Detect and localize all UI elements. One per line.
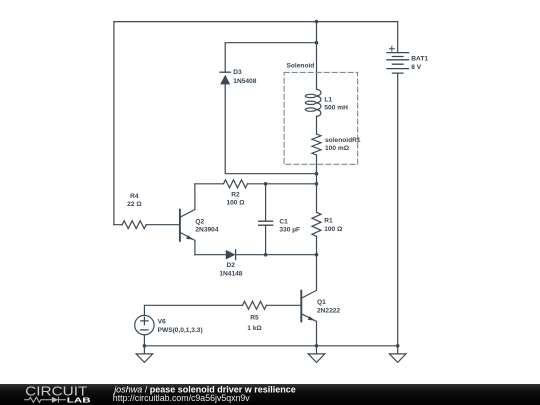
transistor Q2: [180, 184, 195, 255]
resistor R5: [243, 301, 267, 309]
svg-text:Q1: Q1: [317, 299, 326, 306]
svg-text:100 mΩ: 100 mΩ: [325, 145, 350, 152]
battery BAT1: [387, 22, 409, 346]
svg-text:Q2: Q2: [195, 218, 204, 225]
node C1 bottom / D2 wire: [264, 253, 268, 257]
diode D2: [226, 250, 236, 260]
ground G3: [389, 346, 406, 363]
node battery minus / ground rail: [396, 344, 400, 348]
svg-text:R2: R2: [231, 192, 240, 199]
node D3 cathode / solenoid branch: [315, 41, 319, 45]
svg-text:V6: V6: [158, 319, 166, 326]
svg-text:LAB: LAB: [67, 396, 91, 405]
logo CircuitLab: [24, 383, 91, 404]
solenoid box: [284, 72, 358, 164]
svg-text:PWS(0,0,1,3.3): PWS(0,0,1,3.3): [158, 327, 203, 334]
svg-text:C1: C1: [279, 219, 288, 226]
resistor R2: [224, 180, 248, 188]
wire R5 row: [144, 305, 301, 315]
resistor solenoidR1: [312, 134, 321, 155]
diode D3: [220, 72, 230, 84]
wire bottom rail: [144, 345, 397, 347]
resistor R4: [122, 221, 146, 229]
svg-text:1 kΩ: 1 kΩ: [247, 325, 262, 332]
capacitor C1: [259, 184, 273, 255]
svg-text:D2: D2: [226, 262, 235, 269]
svg-text:BAT1: BAT1: [411, 56, 428, 63]
svg-text:2N2222: 2N2222: [317, 307, 340, 314]
svg-text:8 V: 8 V: [411, 64, 421, 71]
wire left rail: [113, 22, 115, 225]
svg-text:330 µF: 330 µF: [279, 227, 300, 234]
svg-text:R5: R5: [250, 314, 259, 321]
wire D2 row: [195, 254, 317, 256]
svg-text:500 mH: 500 mH: [324, 105, 348, 112]
svg-text:100 Ω: 100 Ω: [324, 226, 343, 233]
resistor R1: [312, 212, 321, 236]
svg-text:solenoidR1: solenoidR1: [325, 137, 361, 144]
svg-text:Solenoid: Solenoid: [287, 63, 315, 70]
node D3 anode / solenoid bottom: [315, 172, 319, 176]
node top rail / solenoid branch: [315, 20, 319, 24]
ground G1: [136, 346, 153, 363]
wire top rail: [114, 21, 398, 23]
node R2 output / R1 top: [315, 182, 319, 186]
wire R2 row: [195, 183, 317, 185]
svg-text:D3: D3: [233, 69, 242, 76]
node Q1 emitter / ground rail: [315, 344, 319, 348]
svg-text:2N3904: 2N3904: [195, 227, 218, 234]
svg-text:22 Ω: 22 Ω: [127, 201, 142, 208]
svg-text:R1: R1: [324, 218, 333, 225]
wire R4 base leads: [114, 224, 180, 226]
transistor Q1: [301, 290, 316, 345]
node D2 cathode / R1 bottom: [315, 253, 319, 257]
svg-text:1N5408: 1N5408: [233, 78, 256, 85]
svg-text:R4: R4: [130, 193, 139, 200]
wire D3 branch: [225, 43, 316, 174]
node V6 minus / ground rail: [143, 344, 147, 348]
svg-text:L1: L1: [324, 96, 332, 103]
node C1 top / R2 output: [264, 182, 268, 186]
ground G2: [308, 346, 325, 363]
svg-text:http://circuitlab.com/c9a56jv5: http://circuitlab.com/c9a56jv5qxn9v: [113, 393, 251, 403]
inductor L1: [305, 89, 321, 116]
svg-text:100 Ω: 100 Ω: [226, 200, 245, 207]
svg-text:1N4148: 1N4148: [219, 270, 242, 277]
wire mid vertical rail: [316, 22, 318, 291]
source V6: [135, 315, 154, 345]
